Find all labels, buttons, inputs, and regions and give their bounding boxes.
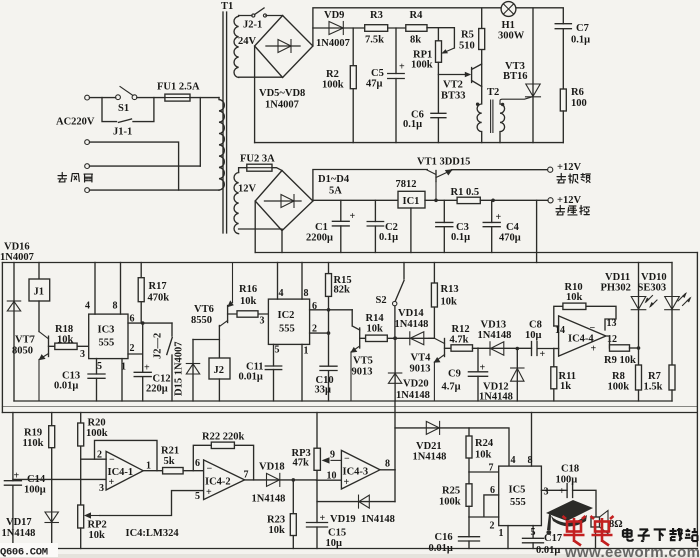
terminal: AC input top [85, 95, 90, 100]
svg-text:VD14: VD14 [398, 308, 424, 319]
pin 8 output [380, 469, 395, 471]
svg-text:2: 2 [490, 521, 495, 532]
svg-text:100k: 100k [439, 497, 461, 508]
svg-text:VT4: VT4 [411, 353, 432, 364]
svg-text:VD5~VD8: VD5~VD8 [259, 88, 305, 99]
svg-text:82k: 82k [334, 285, 351, 296]
svg-text:AC220V: AC220V [56, 117, 95, 128]
wire: bridge1 minus down to lamp return bus [254, 46, 256, 143]
svg-text:SE303: SE303 [638, 283, 667, 294]
svg-text:+: + [480, 363, 486, 374]
svg-text:R2: R2 [326, 69, 339, 80]
resistor R14 [360, 337, 395, 339]
pin 8 IC2 [301, 263, 303, 300]
capacitor C1 [340, 200, 342, 252]
svg-text:3: 3 [80, 349, 85, 360]
svg-text:10k: 10k [475, 450, 492, 461]
relay coil J1 [38, 263, 40, 280]
svg-text:+12V: +12V [557, 195, 581, 206]
svg-text:VD17: VD17 [6, 517, 32, 528]
potentiometer RP2 [78, 505, 84, 528]
fuse FU2 [247, 164, 272, 171]
capacitor C4 [491, 200, 493, 252]
resistor R13 [433, 263, 435, 339]
capacitor C15 [316, 502, 318, 549]
fuse FU1 [165, 94, 190, 101]
svg-text:4.7k: 4.7k [450, 335, 469, 346]
T1 secondary 12V winding [234, 173, 239, 234]
svg-text:C8: C8 [529, 320, 542, 331]
svg-text:3: 3 [260, 316, 265, 327]
svg-text:R16: R16 [239, 284, 257, 295]
bridge rectifier VD5~VD8 [255, 16, 313, 78]
wire: thin mid rail [2, 406, 697, 408]
svg-text:6: 6 [195, 458, 200, 469]
svg-text:5: 5 [195, 491, 200, 502]
pin 5 IC5 to C17 [532, 526, 534, 549]
svg-text:IC5: IC5 [509, 485, 526, 496]
node: VD12/C8 junction [516, 347, 520, 351]
wire: VD9 branch row [313, 27, 365, 29]
pin 8 IC3 [120, 263, 122, 315]
resistor R6 [560, 89, 566, 111]
svg-text:R8: R8 [612, 371, 625, 382]
lamp H1 [501, 2, 516, 17]
wire: C14 node row to pin3 [13, 478, 106, 480]
svg-text:5k: 5k [164, 456, 175, 467]
svg-text:1N4148: 1N4148 [395, 319, 429, 330]
wire: fan2 to hot tap [90, 165, 201, 167]
svg-text:R23: R23 [267, 515, 285, 526]
pin 6 IC3 + R17 junction [128, 322, 172, 324]
diode VD21 [395, 428, 509, 466]
resistor R9 [610, 345, 630, 351]
relay coil J2 [218, 326, 220, 359]
diode VD9 [342, 22, 344, 35]
svg-text:13: 13 [607, 318, 617, 329]
svg-text:8k: 8k [410, 35, 421, 46]
pin 5 IC2 to C11 [273, 344, 275, 401]
svg-text:5A: 5A [329, 186, 342, 197]
svg-text:+: + [344, 477, 350, 488]
svg-text:6: 6 [130, 314, 135, 325]
svg-text:555: 555 [279, 324, 295, 335]
wire: +12V oscillator rail [2, 262, 672, 264]
svg-text:BT33: BT33 [441, 91, 466, 102]
svg-text:VD16: VD16 [4, 242, 30, 253]
capacitor C8 [532, 342, 554, 356]
wire: VD18 node to pin10 [317, 479, 342, 481]
resistor R25 [466, 484, 472, 507]
svg-text:7: 7 [489, 463, 494, 474]
wire: S1 to FU1 [137, 97, 165, 99]
svg-text:1k: 1k [560, 381, 571, 392]
terminal: +12V to remote [548, 198, 553, 203]
svg-text:1N4148: 1N4148 [361, 514, 395, 525]
svg-text:+: + [496, 212, 502, 223]
wire: IC1 out to R1 [425, 199, 457, 201]
wire: output down to VD19 feedback row [394, 470, 396, 502]
capacitor C10 [320, 366, 337, 401]
pin 1 IC2 to ground [301, 344, 303, 401]
pin 1 IC3 to ground [121, 359, 123, 401]
svg-text:8550: 8550 [191, 315, 212, 326]
svg-text:47k: 47k [293, 458, 310, 469]
svg-text:VT5: VT5 [353, 356, 373, 367]
resistor R10 feedback [554, 306, 616, 330]
svg-text:100k: 100k [322, 80, 344, 91]
svg-text:R20: R20 [88, 418, 106, 429]
wire: bottom +12V rail [2, 412, 697, 414]
wire: oscillator ground rail [14, 400, 672, 402]
relay contact J1-1 (bypass of S1) [102, 98, 154, 123]
svg-text:510: 510 [459, 41, 475, 52]
wire: VT1 emitter rail to +12V video terminal [452, 169, 548, 171]
svg-text:IC3: IC3 [98, 325, 115, 336]
svg-text:24V: 24V [238, 36, 257, 47]
svg-text:IC4:LM324: IC4:LM324 [126, 528, 180, 539]
svg-text:R9 10k: R9 10k [604, 355, 636, 366]
svg-text:10μ: 10μ [326, 538, 343, 549]
svg-text:+: + [559, 486, 565, 497]
svg-text:1N4007: 1N4007 [265, 100, 299, 111]
node: VD18/R23 junction [292, 478, 296, 482]
resistor R24 [468, 428, 470, 472]
svg-text:VD18: VD18 [259, 462, 285, 473]
svg-text:J2—2: J2—2 [153, 333, 164, 359]
svg-text:8050: 8050 [12, 346, 33, 357]
svg-text:12V: 12V [238, 184, 257, 195]
svg-text:1N4148: 1N4148 [396, 390, 430, 401]
node: R14/S2/VD14/VD20 junction [393, 336, 397, 340]
svg-text:+: + [144, 363, 150, 374]
svg-text:C4: C4 [506, 222, 520, 233]
potentiometer RP1 [436, 41, 442, 63]
wire: bridge2 plus up to VT1 collector rail [313, 170, 427, 202]
svg-text:100μ: 100μ [24, 485, 46, 496]
wire: FU1 to T1 primary [190, 97, 219, 99]
svg-text:8Ω: 8Ω [609, 519, 623, 530]
wire: + input from C8 node [554, 348, 559, 350]
svg-text:5: 5 [97, 361, 102, 372]
resistor R1 [457, 197, 480, 203]
pin 4 IC2 [277, 263, 279, 300]
svg-text:−: − [109, 455, 115, 466]
wire: fan3 to primary bottom [90, 189, 220, 191]
svg-text:8: 8 [304, 288, 309, 299]
wire: ground bus right edge drop [696, 253, 698, 547]
svg-text:R7: R7 [648, 371, 661, 382]
terminal: fan 3 [85, 188, 90, 193]
pin 1 output [143, 470, 162, 472]
svg-text:H1: H1 [502, 20, 515, 31]
wire: top bus lamp to C7 [516, 8, 563, 24]
svg-text:VT1 3DD15: VT1 3DD15 [417, 157, 470, 168]
wire: IC1 ground pin [410, 208, 412, 253]
svg-text:3: 3 [99, 483, 104, 494]
transistor VT6 8550 [227, 306, 229, 323]
svg-text:VD20: VD20 [403, 379, 429, 390]
speaker 8ohm [591, 517, 600, 527]
transistor VT1 3DD15 [435, 171, 437, 182]
svg-text:47μ: 47μ [366, 79, 383, 90]
svg-text:C17: C17 [544, 533, 562, 544]
pin 2 row [469, 516, 499, 518]
svg-text:7.5k: 7.5k [365, 35, 384, 46]
svg-text:4: 4 [511, 455, 516, 466]
svg-text:0.01μ: 0.01μ [536, 545, 560, 556]
watermark graduation cap [546, 500, 593, 521]
svg-text:0.1μ: 0.1μ [571, 35, 590, 46]
T1 secondary 24V winding [234, 16, 239, 78]
svg-text:PH302: PH302 [601, 283, 631, 294]
resistor R2 [352, 28, 354, 143]
svg-text:−: − [344, 454, 350, 465]
wire: bridge1 plus up and top bus to lamp [313, 8, 501, 46]
wire: C14 left column [12, 413, 14, 549]
wire: FU2 to bridge2 AC top [272, 168, 282, 171]
svg-text:S2: S2 [376, 295, 387, 306]
svg-text:+: + [540, 349, 546, 360]
capacitor C9 [477, 348, 479, 401]
svg-text:+12V: +12V [557, 162, 581, 173]
bridge rectifier D1~D4 [255, 171, 313, 231]
svg-text:3: 3 [544, 487, 549, 498]
transistor VT5 9013 [352, 310, 360, 330]
svg-text:1: 1 [121, 362, 126, 373]
svg-text:+: + [350, 211, 356, 222]
pin 1 IC5 to ground [507, 526, 509, 549]
svg-text:8: 8 [528, 455, 533, 466]
timer IC2 555 [268, 299, 309, 344]
diode VD18 [245, 479, 317, 481]
terminal: fan 1 [85, 140, 90, 145]
wire: left edge +12V drop [1, 263, 3, 413]
capacitor C13 [88, 374, 105, 378]
pin 5 IC3 to C13 [96, 359, 98, 401]
wire: D15 / J2 / VT6 collector row [193, 339, 219, 341]
svg-text:4: 4 [85, 301, 90, 312]
relay contact J2-2 [167, 323, 172, 401]
capacitor C17 [523, 538, 544, 543]
diode VD17 [51, 479, 53, 548]
svg-text:VD10: VD10 [641, 272, 667, 283]
svg-text:8: 8 [385, 459, 390, 470]
node: VT1 base junction [434, 199, 438, 203]
svg-text:33μ: 33μ [315, 385, 332, 396]
svg-text:1N4007: 1N4007 [316, 38, 350, 49]
unijunction transistor VT2 BT33 [438, 74, 466, 76]
svg-text:RP2: RP2 [88, 520, 107, 531]
terminal: fan 2 [85, 164, 90, 169]
resistor R7 [669, 365, 675, 390]
transistor VT4 9013 [429, 338, 445, 343]
svg-text:C16: C16 [435, 532, 453, 543]
resistor R18 [49, 345, 89, 347]
pin 4 IC3 [94, 263, 96, 315]
svg-text:+: + [320, 513, 326, 524]
svg-text:1N4148: 1N4148 [479, 392, 513, 403]
svg-text:0.01μ: 0.01μ [239, 372, 263, 383]
capacitor C16 [468, 517, 470, 549]
svg-text:T1: T1 [221, 1, 233, 12]
svg-text:0.1μ: 0.1μ [403, 119, 422, 130]
svg-text:J1: J1 [34, 287, 45, 298]
svg-text:100k: 100k [86, 428, 108, 439]
svg-text:0.01μ: 0.01μ [429, 543, 453, 554]
svg-text:R22 220k: R22 220k [202, 432, 244, 443]
svg-text:+: + [206, 487, 212, 498]
wire: bottom ground rail [13, 548, 698, 550]
svg-text:+: + [109, 477, 115, 488]
watermark red bug 1 [563, 516, 586, 546]
svg-text:R12: R12 [452, 324, 470, 335]
capacitor C11 [265, 366, 281, 370]
svg-text:www.eeworm.com: www.eeworm.com [564, 544, 700, 558]
svg-text:1: 1 [499, 528, 504, 539]
watermark red bug 2 [591, 516, 614, 546]
svg-text:1.5k: 1.5k [644, 382, 663, 393]
svg-text:VT6: VT6 [194, 304, 214, 315]
diode VD13 [473, 347, 532, 349]
thyristor VT3 BT16 [532, 8, 534, 143]
wire: R21 to pin6 [183, 470, 204, 472]
relay contact J2-1 [239, 8, 283, 16]
svg-text:14: 14 [555, 325, 565, 336]
pin 6 row jog [484, 495, 499, 517]
capacitor C5 [395, 28, 397, 143]
svg-text:470μ: 470μ [499, 233, 521, 244]
svg-text:6: 6 [312, 301, 317, 312]
op-amp IC4-4 [559, 316, 606, 356]
svg-text:R25: R25 [442, 486, 460, 497]
svg-text:R5: R5 [461, 30, 474, 41]
feedback wire IC4-1 [95, 440, 158, 470]
svg-text:10μ: 10μ [525, 330, 542, 341]
svg-text:100k: 100k [608, 382, 630, 393]
svg-text:2: 2 [312, 324, 317, 335]
resistor R15 [328, 263, 330, 310]
timer IC5 555 [499, 466, 542, 525]
svg-text:−: − [590, 323, 596, 334]
resistor R8 [636, 365, 642, 390]
diode VD19 [317, 480, 395, 501]
svg-text:FU2 3A: FU2 3A [240, 154, 275, 165]
svg-text:VD11: VD11 [605, 272, 630, 283]
diode VD14 [395, 337, 434, 339]
svg-text:S1: S1 [118, 103, 129, 114]
svg-text:J2-1: J2-1 [243, 20, 262, 31]
svg-text:220μ: 220μ [146, 384, 168, 395]
potentiometer RP3 [316, 413, 318, 481]
svg-text:10k: 10k [566, 292, 583, 303]
svg-text:J1-1: J1-1 [113, 127, 132, 138]
svg-text:300W: 300W [498, 31, 525, 42]
svg-text:1N4148: 1N4148 [478, 330, 512, 341]
watermark Q606.COM [0, 543, 58, 557]
svg-text:VD9: VD9 [324, 10, 344, 21]
svg-text:C18: C18 [561, 464, 579, 475]
diode VD12 [516, 349, 518, 402]
pin 2 row [81, 458, 106, 460]
wire: lamp return bus [255, 142, 564, 144]
wire: 24V coil bottom to bridge AC [239, 76, 283, 78]
svg-text:R17: R17 [149, 281, 167, 292]
op-amp IC4-1 [106, 451, 143, 490]
pin 8 IC5 [531, 413, 533, 467]
pin 2 IC2 row [310, 310, 329, 366]
svg-text:7: 7 [244, 470, 249, 481]
resistor R20 [80, 413, 82, 506]
wire: R1 to +12V remote terminal [480, 199, 548, 201]
svg-text:100: 100 [571, 98, 587, 109]
svg-text:100k: 100k [411, 60, 433, 71]
pin 6 IC2 row [310, 309, 353, 311]
svg-text:R21: R21 [161, 446, 179, 457]
wire: 12V coil top to fuse FU2 [239, 168, 247, 173]
svg-text:C5: C5 [371, 68, 384, 79]
svg-text:5: 5 [275, 345, 280, 356]
capacitor C6 [437, 62, 439, 142]
svg-text:555: 555 [510, 497, 526, 508]
svg-text:IC4-3: IC4-3 [343, 467, 369, 478]
svg-text:C15: C15 [328, 528, 346, 539]
svg-text:R3: R3 [370, 10, 383, 21]
watermark site name CJK [623, 528, 698, 541]
svg-text:6: 6 [490, 485, 495, 496]
wire: fan hot tap [199, 98, 201, 167]
svg-text:+: + [591, 344, 597, 355]
wire: bridge2 minus to ground bus [255, 201, 282, 253]
ground bus [255, 252, 697, 254]
svg-text:C7: C7 [576, 23, 589, 34]
wire: RP2 wiper to IC4-2 pin5 [100, 491, 204, 516]
svg-text:4: 4 [279, 288, 284, 299]
pin 2 IC3 [128, 323, 143, 372]
pin 14 input [554, 325, 559, 327]
diode D15 (flyback) [192, 340, 194, 402]
svg-text:7812: 7812 [396, 179, 417, 190]
svg-text:VT2: VT2 [443, 80, 463, 91]
op-amp IC4-3 [341, 450, 380, 489]
svg-text:10k: 10k [441, 297, 458, 308]
terminal: +12V to video [548, 167, 553, 172]
resistor R3 [365, 25, 388, 32]
svg-text:1N4148: 1N4148 [252, 494, 286, 505]
capacitor C2 [374, 200, 376, 252]
svg-text:R13: R13 [441, 284, 459, 295]
wire: output column up through rails to VD21 [394, 401, 396, 470]
svg-text:1N4148: 1N4148 [2, 528, 36, 539]
svg-text:1N4148: 1N4148 [413, 452, 447, 463]
svg-text:9: 9 [330, 450, 335, 461]
svg-text:0.1μ: 0.1μ [451, 232, 470, 243]
diode VD16 (supply clamp) [13, 263, 15, 402]
timer IC3 555 [89, 314, 128, 359]
capacitor C18 [567, 484, 573, 498]
svg-text:2: 2 [97, 450, 102, 461]
resistor R23 [292, 480, 294, 549]
svg-text:J2: J2 [214, 365, 225, 376]
svg-text:2200μ: 2200μ [306, 233, 333, 244]
wire: AC hot to S1 [90, 97, 116, 99]
svg-text:R6: R6 [571, 87, 584, 98]
switch S1 [116, 95, 121, 100]
switch S2 [396, 263, 405, 301]
svg-text:R18: R18 [55, 324, 73, 335]
svg-text:IC2: IC2 [278, 310, 295, 321]
IR receiver diode VD11 PH302 [638, 263, 640, 366]
